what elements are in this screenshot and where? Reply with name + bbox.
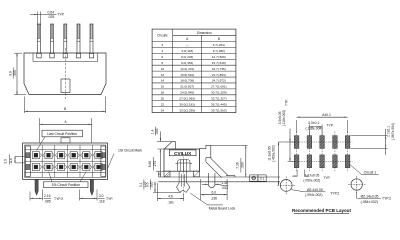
dimension A — [39, 118, 41, 143]
dimension 3.0±0.1 pcb — [308, 125, 310, 137]
svg-text:(.050±.002): (.050±.002) — [303, 178, 320, 182]
svg-text:6.86: 6.86 — [148, 161, 152, 168]
svg-text:Recommended PCB Layout: Recommended PCB Layout — [292, 208, 352, 213]
pcb pad top row col3 — [320, 136, 325, 149]
metal board lock fork — [177, 171, 190, 192]
top view cavity row2 col2 — [45, 163, 52, 170]
svg-text:22: 22 — [161, 102, 165, 106]
top view cavity row2 col3 — [58, 163, 65, 170]
svg-text:.270: .270 — [153, 161, 157, 168]
svg-text:Circuit 1: Circuit 1 — [364, 170, 377, 174]
svg-text:Ø2.4±0.05: Ø2.4±0.05 — [307, 188, 323, 192]
svg-text:27.7(1.091): 27.7(1.091) — [211, 85, 227, 89]
svg-text:0.1: 0.1 — [260, 176, 265, 180]
svg-text:(.094±.002): (.094±.002) — [305, 193, 322, 197]
top view cavity row2 col4 — [70, 163, 77, 170]
svg-text:.181: .181 — [167, 200, 174, 204]
pcb pad top row col4 — [333, 136, 338, 149]
label hole 2.4 left — [291, 190, 304, 192]
top view cavity row2 col1 — [32, 163, 39, 170]
svg-text:.118: .118 — [9, 158, 13, 164]
PCB board section — [158, 176, 280, 178]
pcb pad centerline col3 — [321, 131, 323, 171]
top view cavity row1 col6 — [95, 152, 102, 159]
top view cavity row1 col3 — [58, 152, 65, 159]
svg-text:.020: .020 — [149, 181, 153, 188]
svg-text:18.0(.709): 18.0(.709) — [180, 79, 194, 83]
pcb pad bottom row col4 — [333, 155, 338, 168]
front view pin 1 — [38, 24, 41, 53]
side view plastic post — [178, 160, 191, 172]
front view pin shoulder — [33, 61, 98, 63]
dimension 2.16/.085 TYP.2 — [29, 192, 31, 201]
svg-text:B: B — [64, 107, 66, 111]
svg-text:1.7±0.1: 1.7±0.1 — [387, 126, 391, 137]
top view polarization marks row2 — [40, 165, 42, 169]
position tolerance frame side view — [250, 175, 258, 181]
dimension 9.9/.390 — [14, 52, 22, 54]
top view body inner wall — [25, 145, 106, 177]
top view cavity row1 col1 — [32, 152, 39, 159]
front view pin 3 — [64, 24, 67, 53]
front view pin 2 — [51, 24, 54, 53]
svg-text:21.7(.854): 21.7(.854) — [212, 73, 226, 77]
label 1St Circuit Position — [44, 182, 89, 188]
svg-text:(.118±.004): (.118±.004) — [305, 127, 322, 131]
svg-text:(.469±.002): (.469±.002) — [272, 145, 276, 162]
pcb pad bottom row col5 — [345, 155, 350, 168]
svg-text:A±0.1: A±0.1 — [322, 113, 331, 117]
top view right metal clip — [101, 146, 106, 176]
dimension 1.35/.053 — [202, 183, 209, 185]
svg-text:2.16: 2.16 — [44, 194, 51, 198]
pcb row centerlines — [292, 141, 353, 143]
svg-text:27.0(1.063): 27.0(1.063) — [179, 96, 195, 100]
svg-text:0.64: 0.64 — [47, 10, 54, 14]
svg-text:18.7(.736): 18.7(.736) — [212, 67, 226, 71]
svg-text:TYP.2: TYP.2 — [382, 197, 391, 201]
svg-text:.290: .290 — [241, 162, 245, 169]
label Metal Board Lock — [190, 193, 223, 205]
svg-text:6.7(.264): 6.7(.264) — [213, 43, 225, 47]
svg-text:30.0(1.181): 30.0(1.181) — [179, 102, 195, 106]
svg-text:3.0: 3.0 — [99, 194, 104, 198]
pcb pad top row col1 — [294, 136, 299, 149]
svg-text:8: 8 — [162, 61, 164, 65]
svg-text:9.7(.382): 9.7(.382) — [213, 49, 225, 53]
label Last Circuit Position — [42, 130, 83, 137]
dimension 6.0/.236 — [200, 179, 202, 200]
svg-text:B: B — [218, 37, 220, 41]
svg-text:Ø2.14±0.05: Ø2.14±0.05 — [361, 194, 379, 198]
side view left standoff — [164, 171, 170, 177]
svg-text:2: 2 — [162, 43, 164, 47]
top view cavity row2 col6 — [95, 163, 102, 170]
svg-text:36.7(1.445): 36.7(1.445) — [211, 102, 227, 106]
svg-text:12: 12 — [161, 73, 165, 77]
svg-text:33.0(1.299): 33.0(1.299) — [179, 108, 195, 112]
pin tail through board — [207, 173, 209, 186]
svg-text:21.0(.827): 21.0(.827) — [180, 85, 194, 89]
leader last circuit position — [37, 137, 46, 151]
top view right solder leg — [90, 179, 93, 195]
svg-text:Circuits: Circuits — [157, 34, 168, 38]
svg-text:TYP.: TYP. — [285, 99, 289, 106]
front view centerline — [64, 48, 66, 99]
svg-text:18: 18 — [161, 91, 165, 95]
svg-text:TYP.2: TYP.2 — [54, 197, 63, 201]
dimension 3.0/.118 TYP — [79, 190, 81, 201]
side view bent pin diagonal — [206, 157, 211, 159]
svg-text:6.0: 6.0 — [212, 191, 217, 195]
side view body — [164, 149, 199, 171]
pcb pad centerline col5 — [347, 131, 349, 171]
svg-text:9.9: 9.9 — [8, 71, 12, 76]
pcb pad top row col5 — [345, 136, 350, 149]
svg-text:20: 20 — [161, 96, 165, 100]
svg-text:15.7(.618): 15.7(.618) — [212, 61, 226, 65]
front view center latch — [61, 79, 70, 93]
top view cavity row1 col2 — [45, 152, 52, 159]
svg-text:CVILUX: CVILUX — [174, 151, 192, 156]
svg-text:39.7(1.563): 39.7(1.563) — [211, 108, 227, 112]
svg-text:Metal Board Lock: Metal Board Lock — [209, 206, 236, 210]
label hole 2.14 right — [356, 191, 358, 198]
svg-text:.390: .390 — [13, 70, 17, 77]
svg-text:15.0(.591): 15.0(.591) — [180, 73, 194, 77]
svg-text:1St Circuit Position: 1St Circuit Position — [51, 183, 80, 187]
pcb pad centerline col2 — [308, 131, 310, 171]
pcb pad bottom row col1 — [294, 155, 299, 168]
svg-text:1St Circuit Mark: 1St Circuit Mark — [118, 149, 142, 153]
dimension table — [152, 29, 236, 113]
svg-text:9.0(.354): 9.0(.354) — [181, 61, 193, 65]
dimension 4.6/.181 — [156, 183, 158, 201]
svg-text:6: 6 — [162, 55, 164, 59]
dimension 1.7±0.1 right — [351, 135, 388, 137]
svg-text:TYP.: TYP. — [106, 197, 113, 201]
svg-text:24.0(.945): 24.0(.945) — [180, 91, 194, 95]
dimension 0.64/.025 TYP — [30, 13, 57, 15]
top view cavity row1 col5 — [83, 152, 90, 159]
svg-text:(.118±.002): (.118±.002) — [282, 110, 286, 127]
svg-text:12.0(.472): 12.0(.472) — [180, 67, 194, 71]
board lock centerline — [182, 157, 184, 195]
svg-text:.085: .085 — [44, 200, 51, 204]
svg-text:3.0±0.05: 3.0±0.05 — [278, 111, 282, 124]
svg-text:TYP.: TYP. — [326, 124, 333, 128]
dimension B — [24, 97, 26, 114]
pcb pad bottom row col2 — [307, 155, 312, 168]
pcb pad centerline col1 — [296, 131, 298, 171]
front view pin 4 — [77, 24, 80, 53]
svg-text:3.0: 3.0 — [4, 159, 8, 164]
svg-text:.118: .118 — [98, 200, 104, 204]
top view column dividers — [41, 145, 43, 177]
pcb mounting hole left — [280, 180, 292, 192]
svg-text:24.7(.972): 24.7(.972) — [212, 79, 226, 83]
front view connector body — [24, 53, 106, 95]
top view cavity row2 col5 — [83, 163, 90, 170]
svg-text:4.6: 4.6 — [168, 194, 173, 198]
top view left metal clip — [25, 146, 30, 176]
pcb pad centerline col4 — [334, 131, 336, 171]
svg-text:TYP.: TYP. — [323, 176, 330, 180]
svg-text:1.4: 1.4 — [150, 129, 154, 134]
svg-text:16: 16 — [161, 85, 165, 89]
dimension 3.0/.118 top view rows — [14, 156, 16, 163]
top view left solder leg — [35, 179, 38, 195]
svg-text:Last Circuit Position: Last Circuit Position — [47, 132, 77, 136]
svg-text:30.7(1.209): 30.7(1.209) — [211, 91, 227, 95]
svg-text:TYP.: TYP. — [57, 12, 64, 16]
top view body outline — [23, 143, 108, 179]
leaders 1st circuit position — [49, 172, 53, 182]
svg-text:12.7(.500): 12.7(.500) — [212, 55, 226, 59]
svg-text:(.067±.004): (.067±.004) — [391, 123, 395, 140]
pcb pad bottom row col3 — [320, 155, 325, 168]
svg-text:.055: .055 — [155, 128, 159, 135]
svg-text:.025: .025 — [48, 15, 55, 19]
top view latch tab — [61, 138, 70, 143]
svg-text:.236: .236 — [211, 197, 218, 201]
svg-text:24: 24 — [161, 108, 165, 112]
svg-text:11.9±0.05: 11.9±0.05 — [267, 146, 271, 161]
svg-text:33.7(1.327): 33.7(1.327) — [211, 96, 227, 100]
dimension A±0.1 pcb — [296, 120, 298, 133]
CVILUX logo box — [169, 150, 196, 156]
pcb mounting hole right — [351, 179, 362, 190]
dimension 1.27±0.05 — [296, 170, 298, 177]
svg-text:4: 4 — [162, 49, 164, 53]
side view top latch chamfer — [164, 142, 176, 150]
svg-text:1.27±0.05: 1.27±0.05 — [305, 173, 320, 177]
side view right pin step — [199, 145, 210, 158]
svg-text:(.084±.002): (.084±.002) — [361, 200, 378, 204]
svg-text:14: 14 — [161, 79, 165, 83]
side view right standoff — [193, 171, 199, 177]
svg-text:6.0(.236): 6.0(.236) — [181, 55, 193, 59]
svg-text:3.0(.118): 3.0(.118) — [181, 49, 193, 53]
svg-text:TYP.2: TYP.2 — [330, 192, 339, 196]
svg-text:Dimension: Dimension — [197, 31, 212, 35]
front view pin 5 — [90, 24, 93, 53]
pcb pad top row col2 — [307, 136, 312, 149]
svg-text:10: 10 — [161, 67, 165, 71]
top view polarization marks row1 — [40, 153, 42, 157]
svg-text:3.0±0.1: 3.0±0.1 — [308, 121, 319, 125]
top view cavity row1 col4 — [70, 152, 77, 159]
svg-text:7.36: 7.36 — [236, 162, 240, 169]
